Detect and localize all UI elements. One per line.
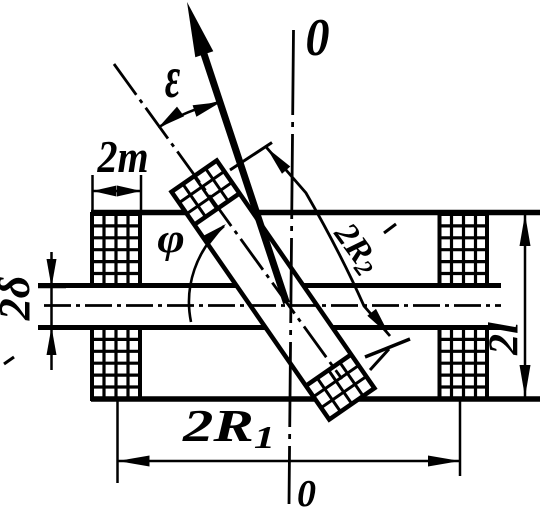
svg-text:φ: φ [157,216,185,261]
svg-text:ε: ε [165,44,180,110]
svg-text:2δ: 2δ [0,276,39,322]
svg-text:0: 0 [306,8,330,67]
svg-text:0: 0 [297,473,316,509]
svg-text:2m: 2m [97,133,149,183]
svg-text:2l: 2l [482,322,528,356]
